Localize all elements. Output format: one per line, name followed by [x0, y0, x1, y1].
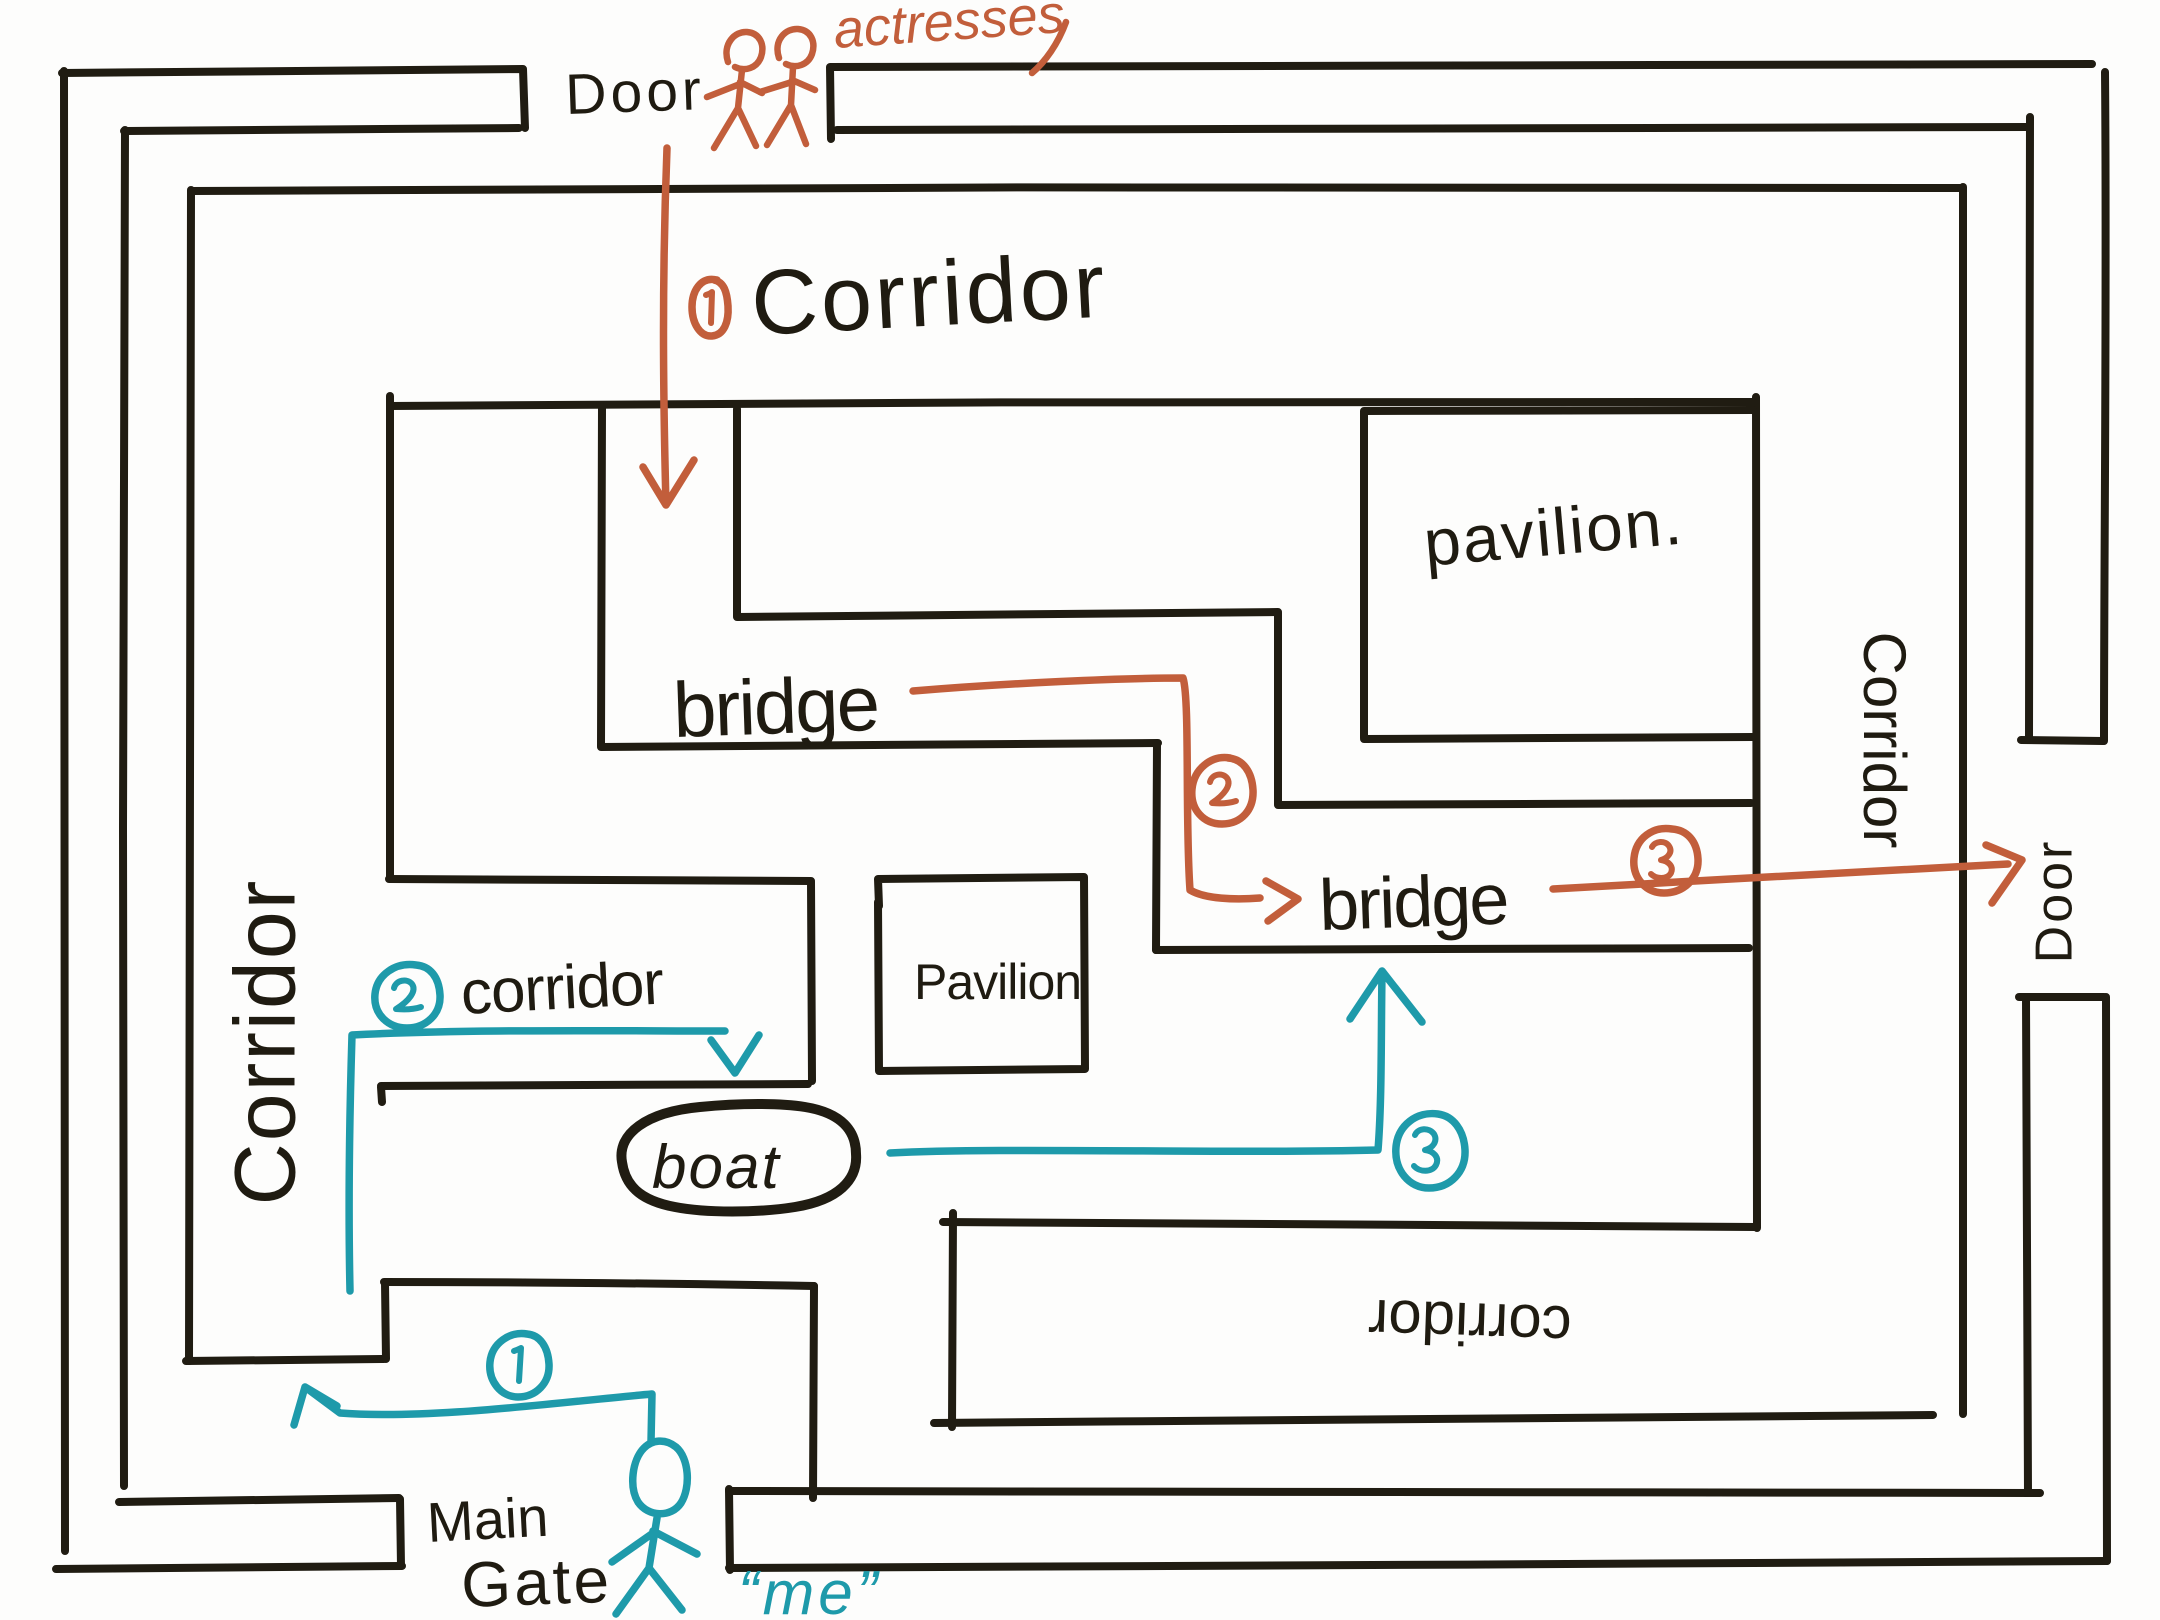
- svg-text:“me”: “me”: [738, 1559, 881, 1620]
- bridge step horizontal: [1278, 803, 1751, 805]
- wall W2 right vertical upper: [2029, 117, 2030, 740]
- right door jamb bottom: [2019, 993, 2104, 1001]
- main gate jamb left: [400, 1499, 401, 1566]
- svg-text:Door: Door: [564, 58, 706, 127]
- inner wall left vertical: [386, 396, 394, 877]
- bridge1 left vertical: [601, 407, 602, 746]
- orange digit 3: [1651, 842, 1672, 878]
- svg-text:Main: Main: [425, 1485, 550, 1554]
- wall W1 right vertical upper: [2104, 72, 2106, 741]
- boat oval: [621, 1104, 856, 1212]
- corridor yard top: [389, 879, 811, 881]
- teal circled 3: [1396, 1114, 1465, 1188]
- svg-text:Gate: Gate: [460, 1544, 613, 1620]
- teal digit 1: [514, 1348, 521, 1381]
- actresses underline swoosh: [1032, 22, 1066, 73]
- me path 2 (corridor): [349, 1031, 759, 1291]
- wall W2 bottom-right segment: [729, 1491, 2040, 1493]
- teal circled 1: [490, 1334, 549, 1397]
- svg-text:bridge: bridge: [672, 659, 880, 754]
- wall W1 bottom-right segment: [729, 1561, 2107, 1568]
- bridge1 step top: [737, 612, 1278, 617]
- svg-text:pavilion.: pavilion.: [1421, 484, 1687, 580]
- wall W2 left vertical: [123, 130, 125, 1486]
- pavilion center rectangle: [878, 877, 1085, 1071]
- svg-text:Corridor: Corridor: [1851, 632, 1918, 849]
- wall W3 top: [192, 187, 1962, 191]
- lower-left wall right vertical: [813, 1286, 814, 1498]
- wall W3 bottom-right segment: [934, 1415, 1933, 1423]
- inner wall right vertical: [1756, 397, 1757, 1228]
- wall W3 right vertical: [1959, 187, 1967, 1414]
- orange circled 1: [692, 279, 728, 336]
- pavilion top-right rectangle: [1364, 410, 1753, 739]
- wall W2 top-right segment: [837, 127, 2029, 130]
- corridor yard right vertical: [811, 882, 812, 1081]
- bottom yard left vertical: [952, 1213, 953, 1427]
- right door jamb top: [2021, 740, 2103, 741]
- me path 3 (boat to bridge): [890, 971, 1422, 1153]
- svg-text:Corridor: Corridor: [749, 234, 1110, 355]
- svg-text:corridor: corridor: [459, 948, 665, 1028]
- corridor yard bottom: [381, 1084, 808, 1102]
- bridge1 floor: [601, 743, 1158, 747]
- wall W1 top-left segment with door jamb: [62, 69, 525, 128]
- wall W2 right vertical lower: [2026, 998, 2028, 1493]
- wall W3 bottom-left stub: [186, 1359, 384, 1361]
- wall W1 top-right segment with door jamb: [830, 64, 2092, 139]
- orange digit 1: [706, 292, 712, 323]
- actresses path 2 (bridge1 to bridge2): [913, 678, 1298, 921]
- svg-text:Pavilion: Pavilion: [914, 954, 1081, 1010]
- svg-text:Corridor: Corridor: [218, 879, 314, 1206]
- inner wall top: [390, 402, 1756, 406]
- bridge1 right vertical: [1156, 744, 1157, 950]
- actresses path arrow 1 (down through top door): [643, 148, 694, 505]
- orange digit 2: [1210, 775, 1236, 804]
- wall W1 bottom-left segment: [56, 1566, 402, 1569]
- bridge step vertical: [1274, 613, 1282, 804]
- me stick figure: [612, 1441, 697, 1614]
- teal digit 3: [1414, 1129, 1437, 1171]
- bottom yard top: [943, 1222, 1756, 1227]
- lower-left wall horizontal: [384, 1282, 814, 1286]
- actress stick figure 2: [760, 29, 815, 145]
- actress stick figure 1: [707, 32, 762, 148]
- svg-text:boat: boat: [652, 1133, 781, 1202]
- teal digit 2: [394, 981, 421, 1010]
- bridge2 floor: [1156, 948, 1749, 950]
- wall W1 right vertical lower: [2106, 997, 2107, 1561]
- actresses path arrow 3 (to right door): [1553, 845, 2022, 903]
- orange circled 2: [1192, 758, 1253, 824]
- wall W2 top-left segment: [124, 128, 519, 131]
- svg-text:corridor: corridor: [1367, 1287, 1573, 1361]
- wall W2 bottom-left segment: [119, 1498, 399, 1502]
- wall W1 left vertical: [62, 71, 65, 1551]
- orange circled 3: [1634, 829, 1698, 893]
- teal circled 2: [375, 965, 440, 1028]
- bridge1 inner vertical: [733, 409, 741, 616]
- svg-text:actresses: actresses: [832, 0, 1067, 60]
- me path 1 (from gate to corner): [294, 1387, 652, 1442]
- lower-left wall left vertical: [385, 1283, 386, 1359]
- wall W3 left vertical: [188, 190, 191, 1361]
- svg-text:Door: Door: [2026, 839, 2084, 964]
- svg-text:bridge: bridge: [1318, 859, 1509, 946]
- main gate jamb right: [729, 1489, 730, 1570]
